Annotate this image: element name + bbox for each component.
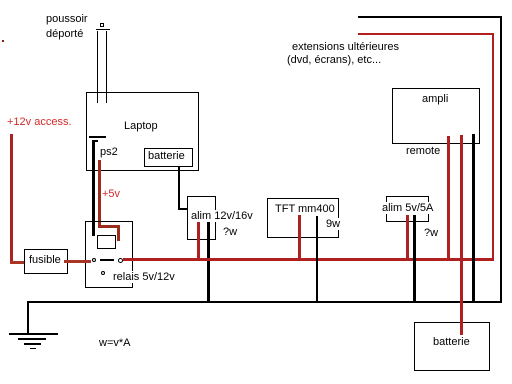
text poussoir déporté <box>46 13 88 25</box>
text batterie (main) <box>433 336 470 348</box>
wire fuse to relay contact (red) <box>64 260 91 263</box>
wire ampli black (to ground bus) <box>472 134 475 302</box>
text Laptop <box>124 120 158 132</box>
text +12v access. <box>7 116 72 128</box>
amplifier box <box>392 88 480 144</box>
text w=v*A <box>99 337 131 349</box>
laptop box <box>86 92 199 171</box>
fuse box fusible <box>24 249 68 274</box>
wire TFT red <box>298 215 301 259</box>
TFT display box <box>267 198 339 238</box>
push button S1 (poussoir) <box>100 23 104 27</box>
text 9w <box>326 218 340 230</box>
text remote <box>406 145 440 157</box>
text batterie (laptop) <box>148 150 185 162</box>
text ?w (alim 5v) <box>424 227 438 239</box>
text ps2 <box>100 146 118 158</box>
relay contact bar <box>100 259 114 261</box>
laptop internal battery box <box>144 148 193 167</box>
wire alim5v black <box>413 215 416 302</box>
text +5v <box>102 188 120 200</box>
wire push button to laptop (two leads) <box>97 31 98 103</box>
psu alim 5v/5A box <box>386 196 429 222</box>
relay lower pin <box>101 271 105 275</box>
wire red bus +12v (horizontal) <box>123 258 494 261</box>
psu alim 12v/16v box <box>187 196 216 240</box>
ground symbol <box>27 301 29 334</box>
text relais 5v/12v <box>113 271 175 283</box>
wire ps2 red +5v (to relay coil) <box>98 160 101 228</box>
wire ps2 black thick (to relay) <box>92 142 95 236</box>
text extensions ultérieures <box>292 41 399 53</box>
text alim 12v/16v <box>191 210 253 222</box>
ps2 ground symbol <box>89 136 106 138</box>
battery main box <box>414 322 490 371</box>
wire extension black (top, to right edge down) <box>358 16 502 18</box>
text fusible <box>29 254 61 266</box>
wire laptop battery to alim 12v box <box>178 166 180 209</box>
wire alim12v red output <box>197 222 200 259</box>
text alim 5v/5A <box>382 202 433 214</box>
wire black ground bus (horizontal) <box>27 301 502 303</box>
relay contact left pin <box>92 258 96 262</box>
text ?w <box>223 226 237 238</box>
wire extension red (top, to right edge down) <box>358 33 494 35</box>
wire alim5v red <box>406 215 409 259</box>
stray red dot <box>2 40 4 42</box>
wire +12v supply red (left side) <box>10 134 13 262</box>
wire ampli red 1 (to +12v bus) <box>447 136 450 258</box>
relay K1 box <box>85 221 133 288</box>
wire alim12v black output <box>207 222 210 302</box>
relay coil <box>97 235 116 249</box>
relay contact right pin <box>118 258 123 263</box>
text ampli <box>422 93 448 105</box>
wire ampli red 2 (to battery) <box>460 135 463 335</box>
text TFT mm400 <box>275 203 335 215</box>
wire TFT black <box>316 216 319 302</box>
